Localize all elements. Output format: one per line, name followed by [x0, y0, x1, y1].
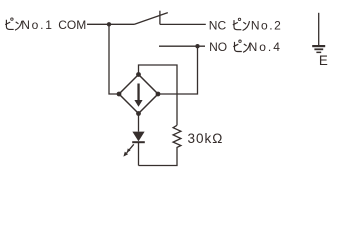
- svg-text:NC: NC: [209, 18, 227, 32]
- svg-text:E: E: [319, 53, 328, 68]
- svg-text:No.1: No.1: [21, 18, 54, 32]
- svg-text:COM: COM: [58, 18, 86, 32]
- svg-text:No.2: No.2: [251, 18, 282, 32]
- svg-text:NO: NO: [209, 40, 227, 54]
- svg-text:No.4: No.4: [249, 40, 282, 54]
- svg-text:30kΩ: 30kΩ: [188, 131, 224, 146]
